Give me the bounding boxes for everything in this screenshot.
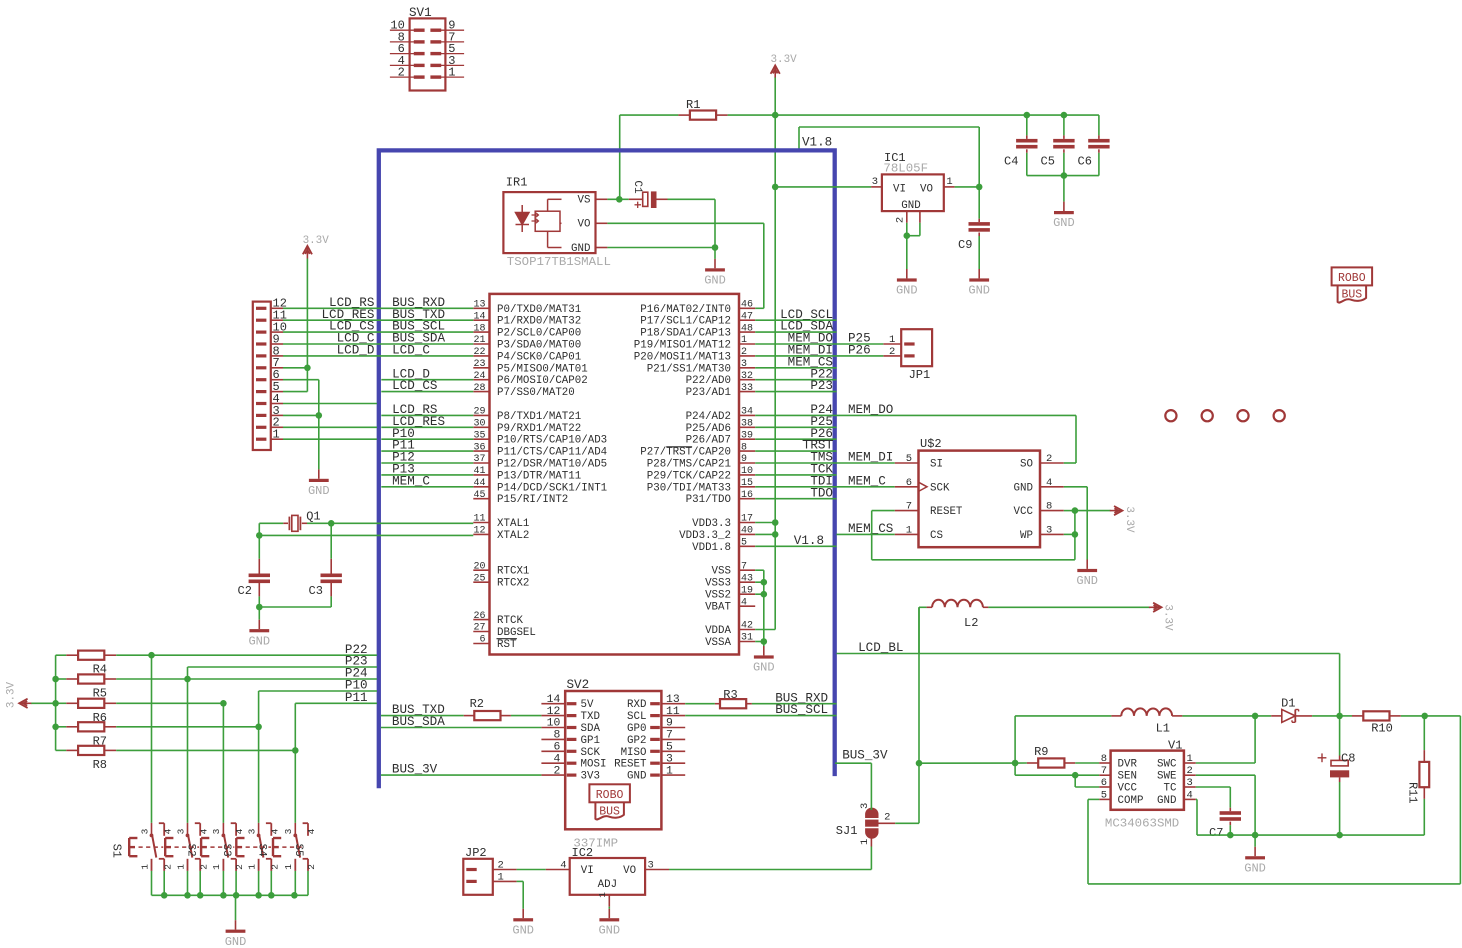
wire LCD_D..MEM_C rows xyxy=(381,367,473,488)
svg-text:13: 13 xyxy=(473,300,485,311)
svg-text:GND: GND xyxy=(901,200,920,212)
wire net P24 (in) xyxy=(755,403,836,417)
svg-text:P27/TRST/CAP20: P27/TRST/CAP20 xyxy=(640,447,731,459)
svg-text:39: 39 xyxy=(741,430,753,441)
svg-text:P14/DCD/SCK1/INT1: P14/DCD/SCK1/INT1 xyxy=(497,482,607,494)
svg-text:3: 3 xyxy=(872,176,878,188)
wire net BUS_3V (SV2) xyxy=(381,763,542,777)
svg-text:2: 2 xyxy=(1046,453,1052,465)
svg-text:GND: GND xyxy=(1157,795,1176,807)
svg-text:C8: C8 xyxy=(1341,752,1355,766)
svg-text:MISO: MISO xyxy=(621,747,647,759)
IC IR1 xyxy=(503,176,607,255)
wire net MEM_DO (U$2) xyxy=(837,403,1077,463)
wire V1 SWE xyxy=(1196,775,1255,835)
svg-text:2: 2 xyxy=(269,864,280,870)
svg-text:2: 2 xyxy=(1187,765,1193,777)
svg-text:DBGSEL: DBGSEL xyxy=(497,627,536,639)
wire VDD3.3 pins xyxy=(755,519,778,538)
svg-text:8: 8 xyxy=(741,442,747,453)
svg-text:TC: TC xyxy=(1164,783,1177,795)
svg-text:3: 3 xyxy=(211,828,222,834)
svg-text:V1.8: V1.8 xyxy=(802,136,832,150)
svg-text:7: 7 xyxy=(741,561,747,572)
svg-text:3: 3 xyxy=(666,753,673,765)
svg-text:18: 18 xyxy=(473,323,485,334)
svg-text:10: 10 xyxy=(547,718,561,730)
svg-text:21: 21 xyxy=(473,335,485,346)
svg-text:LCD_C: LCD_C xyxy=(392,344,430,358)
svg-text:IC2: IC2 xyxy=(572,846,594,860)
wire net P24 (left) xyxy=(116,667,377,683)
ground (switches) xyxy=(225,920,247,948)
svg-text:VDDA: VDDA xyxy=(705,625,731,637)
svg-text:SJ1: SJ1 xyxy=(836,824,858,838)
svg-text:P2/SCL0/CAP00: P2/SCL0/CAP00 xyxy=(497,328,581,340)
svg-text:P16/MAT02/INT0: P16/MAT02/INT0 xyxy=(640,304,731,316)
svg-text:3: 3 xyxy=(741,359,747,370)
svg-text:16: 16 xyxy=(741,490,753,501)
connector SV2 xyxy=(541,678,685,829)
switch S2 xyxy=(165,823,209,895)
wire net MEM_CS (in) xyxy=(755,355,836,369)
svg-text:41: 41 xyxy=(473,466,485,477)
wire IR1 VO to INT0 xyxy=(607,223,763,308)
svg-text:WP: WP xyxy=(1020,530,1033,542)
svg-text:C3: C3 xyxy=(309,584,323,598)
ground (U$2) xyxy=(1076,560,1098,589)
supply 3.3V (connector) xyxy=(283,235,329,392)
wire net LCD_BL xyxy=(837,641,1340,716)
wire net P22 (left) xyxy=(116,643,377,659)
svg-text:4: 4 xyxy=(1046,477,1052,489)
svg-text:4: 4 xyxy=(198,828,209,834)
supply 3.3V (U$2) xyxy=(1075,506,1135,533)
wire net P11 (left) xyxy=(295,691,377,705)
wire boost gnd row xyxy=(1197,832,1424,847)
wire connector gnd net xyxy=(283,380,322,470)
svg-text:17: 17 xyxy=(741,514,753,525)
svg-text:R3: R3 xyxy=(723,688,737,702)
wire R1 to IR1 VS xyxy=(619,115,621,199)
svg-text:GP2: GP2 xyxy=(627,735,646,747)
wire net P25 (JP1) xyxy=(837,332,884,346)
svg-text:SDA: SDA xyxy=(581,723,601,735)
svg-text:5: 5 xyxy=(741,538,747,549)
svg-text:VSS: VSS xyxy=(712,566,731,578)
svg-text:P12/DSR/MAT10/AD5: P12/DSR/MAT10/AD5 xyxy=(497,459,607,471)
svg-text:2: 2 xyxy=(741,347,747,358)
svg-text:20: 20 xyxy=(473,561,485,572)
svg-text:26: 26 xyxy=(473,611,485,622)
wire JP2 pin1 gnd xyxy=(517,881,524,908)
svg-text:R9: R9 xyxy=(1034,745,1048,759)
svg-text:S2: S2 xyxy=(184,844,196,857)
wire U$2 reset/wp/vcc tie xyxy=(872,507,1078,559)
svg-text:34: 34 xyxy=(741,407,753,418)
capacitor C1 xyxy=(629,180,668,208)
svg-text:48: 48 xyxy=(741,323,753,334)
svg-text:P25/AD6: P25/AD6 xyxy=(686,423,731,435)
wire decoupling gnd rail xyxy=(1027,172,1099,201)
wire LCD/BUS rows xyxy=(283,296,473,358)
svg-text:MC34063SMD: MC34063SMD xyxy=(1105,817,1179,831)
svg-text:BUS_SCL: BUS_SCL xyxy=(775,703,828,717)
supply 3.3V (top) xyxy=(771,54,798,78)
svg-text:IR1: IR1 xyxy=(506,176,528,190)
svg-text:1: 1 xyxy=(139,864,150,870)
svg-text:P7/SS0/MAT20: P7/SS0/MAT20 xyxy=(497,387,575,399)
svg-text:2: 2 xyxy=(306,864,317,870)
svg-text:GND: GND xyxy=(1053,216,1075,230)
frame module boundary xyxy=(379,150,835,788)
svg-text:MOSI: MOSI xyxy=(581,759,607,771)
svg-text:5: 5 xyxy=(1101,789,1107,801)
wire net LCD_SCL xyxy=(755,308,836,322)
svg-text:78L05F: 78L05F xyxy=(883,161,928,175)
IC IC1 78L05 xyxy=(871,151,955,223)
svg-text:ROBO: ROBO xyxy=(596,789,624,802)
ground (IR1) xyxy=(704,259,726,288)
wire XTAL1 xyxy=(328,520,473,527)
svg-text:5: 5 xyxy=(906,453,912,465)
wire R6 to switch3 xyxy=(116,700,227,707)
svg-text:P8/TXD1/MAT21: P8/TXD1/MAT21 xyxy=(497,411,581,423)
svg-text:1: 1 xyxy=(741,335,747,346)
svg-text:VDD3.3: VDD3.3 xyxy=(692,518,731,530)
svg-text:LCD_CS: LCD_CS xyxy=(392,379,437,393)
svg-text:ADJ: ADJ xyxy=(598,879,617,891)
capacitor C7 xyxy=(1209,808,1241,840)
wire connector pin1 xyxy=(283,438,377,440)
svg-text:36: 36 xyxy=(473,442,485,453)
svg-text:8: 8 xyxy=(1046,501,1052,513)
svg-text:47: 47 xyxy=(741,311,753,322)
svg-text:S1: S1 xyxy=(110,844,124,858)
svg-text:1: 1 xyxy=(211,864,222,870)
svg-text:P30/TDI/MAT33: P30/TDI/MAT33 xyxy=(647,482,731,494)
svg-text:7: 7 xyxy=(666,730,673,742)
wire L2 column xyxy=(916,607,923,766)
svg-text:SV2: SV2 xyxy=(567,678,590,692)
svg-text:33: 33 xyxy=(741,383,753,394)
svg-text:6: 6 xyxy=(479,635,485,646)
svg-text:C1: C1 xyxy=(631,180,643,194)
wire net P23 (left) xyxy=(188,655,378,669)
connector LCD header xyxy=(253,297,287,450)
wire net MEM_DO (in) xyxy=(755,332,836,346)
capacitor C4 xyxy=(1004,112,1038,176)
svg-text:RXD: RXD xyxy=(627,699,646,711)
capacitor C5 xyxy=(1041,112,1075,176)
capacitor C8 xyxy=(1318,716,1356,835)
svg-text:GND: GND xyxy=(512,923,534,937)
svg-text:P19/MISO1/MAT12: P19/MISO1/MAT12 xyxy=(634,340,731,352)
svg-text:BUS: BUS xyxy=(1341,288,1362,301)
svg-text:P0/TXD0/MAT31: P0/TXD0/MAT31 xyxy=(497,304,581,316)
svg-text:4: 4 xyxy=(741,597,747,608)
svg-text:P20/MOSI1/MAT13: P20/MOSI1/MAT13 xyxy=(634,351,731,363)
svg-text:P6/MOSI0/CAP02: P6/MOSI0/CAP02 xyxy=(497,375,588,387)
svg-text:1: 1 xyxy=(246,864,257,870)
svg-text:13: 13 xyxy=(666,694,680,706)
svg-text:2: 2 xyxy=(895,217,907,223)
wire supply to L1 xyxy=(1012,716,1019,766)
wire net MEM_DI (U$2) xyxy=(837,451,895,465)
svg-text:GP1: GP1 xyxy=(581,735,600,747)
svg-text:BUS: BUS xyxy=(599,805,620,818)
svg-text:P22/AD0: P22/AD0 xyxy=(686,375,731,387)
svg-text:1: 1 xyxy=(597,892,608,898)
svg-text:C5: C5 xyxy=(1041,155,1055,169)
svg-text:3.3V: 3.3V xyxy=(1123,506,1135,533)
svg-text:5: 5 xyxy=(666,742,673,754)
svg-text:GND: GND xyxy=(704,274,726,288)
svg-text:RTCX2: RTCX2 xyxy=(497,578,529,590)
svg-text:P5/MISO0/MAT01: P5/MISO0/MAT01 xyxy=(497,363,588,375)
value label 337IMP xyxy=(573,837,618,851)
switch S5 xyxy=(273,823,317,895)
svg-text:4: 4 xyxy=(560,860,566,872)
wire net MEM_CS (U$2) xyxy=(837,522,895,536)
svg-text:25: 25 xyxy=(473,573,485,584)
wire V1 SEN/VCC xyxy=(1015,763,1099,787)
svg-text:31: 31 xyxy=(741,633,753,644)
wire IC2 VO to SJ1 xyxy=(669,847,871,870)
svg-text:24: 24 xyxy=(473,371,485,382)
svg-text:45: 45 xyxy=(473,490,485,501)
wire net P22 (in) xyxy=(755,367,836,381)
svg-text:12: 12 xyxy=(473,526,485,537)
svg-text:9: 9 xyxy=(741,454,747,465)
wire JP2 to IC2 xyxy=(517,869,546,871)
resistor R9 xyxy=(1027,745,1099,767)
svg-text:3: 3 xyxy=(648,860,654,872)
logo ROBO BUS (top right) xyxy=(1332,267,1373,302)
connector SV1 xyxy=(390,6,464,91)
svg-text:R10: R10 xyxy=(1371,722,1393,736)
svg-text:27: 27 xyxy=(473,623,485,634)
wire V1 SWC xyxy=(1196,713,1259,763)
IC V1 MC34063 xyxy=(1099,739,1196,810)
crystal Q1 xyxy=(259,510,331,532)
svg-text:10: 10 xyxy=(741,466,753,477)
svg-text:1: 1 xyxy=(498,872,504,884)
svg-text:V1: V1 xyxy=(1168,739,1182,753)
resistor R1 xyxy=(620,98,776,120)
svg-text:40: 40 xyxy=(741,526,753,537)
svg-text:P4/SCK0/CAP01: P4/SCK0/CAP01 xyxy=(497,351,581,363)
svg-text:6: 6 xyxy=(553,742,560,754)
svg-text:3: 3 xyxy=(859,803,871,809)
jumper SJ1 xyxy=(836,803,895,847)
ground (C9) xyxy=(968,269,990,298)
svg-text:22: 22 xyxy=(473,347,485,358)
IC U1 main MCU outline xyxy=(490,294,740,655)
svg-text:P15/RI/INT2: P15/RI/INT2 xyxy=(497,494,568,506)
value label MC34063SMD xyxy=(1105,817,1179,831)
value label 78L05F xyxy=(883,161,928,175)
svg-text:S5: S5 xyxy=(292,844,304,857)
svg-text:R8: R8 xyxy=(93,758,107,772)
svg-text:1: 1 xyxy=(175,864,186,870)
wire IR1 VS node xyxy=(607,196,628,203)
svg-text:GND: GND xyxy=(753,661,775,675)
svg-text:S4: S4 xyxy=(255,844,267,857)
svg-text:XTAL1: XTAL1 xyxy=(497,518,529,530)
connector JP1 xyxy=(883,329,932,382)
svg-text:C6: C6 xyxy=(1078,155,1092,169)
wire switch2 column xyxy=(187,667,189,823)
svg-text:TDO: TDO xyxy=(810,486,833,500)
svg-text:2: 2 xyxy=(498,860,504,872)
svg-text:VO: VO xyxy=(920,183,933,195)
wire IC2 gnd xyxy=(608,907,610,909)
svg-text:C9: C9 xyxy=(958,238,972,252)
inductor L1 xyxy=(1015,708,1255,735)
wire VSS net xyxy=(755,570,767,646)
svg-text:MEM_DO: MEM_DO xyxy=(848,403,893,417)
ground (JP2) xyxy=(512,909,534,938)
ground (C4-C6) xyxy=(1053,202,1075,231)
svg-text:GP0: GP0 xyxy=(627,723,646,735)
svg-text:2: 2 xyxy=(553,765,560,777)
svg-text:C2: C2 xyxy=(238,584,252,598)
resistor R10 xyxy=(1340,711,1425,735)
capacitor C3 xyxy=(309,523,342,607)
svg-text:1: 1 xyxy=(1187,753,1193,765)
wire 3.3V rail vertical xyxy=(774,78,776,630)
svg-text:2: 2 xyxy=(889,346,895,358)
svg-text:GND: GND xyxy=(1014,482,1033,494)
IC U1 right pins xyxy=(634,300,755,650)
svg-text:3: 3 xyxy=(175,828,186,834)
capacitor C2 xyxy=(238,535,271,607)
svg-text:P26: P26 xyxy=(848,344,871,358)
svg-text:R2: R2 xyxy=(470,697,484,711)
wire crystal gnd xyxy=(256,604,331,620)
svg-text:12: 12 xyxy=(547,706,561,718)
svg-text:3: 3 xyxy=(1187,777,1193,789)
svg-text:19: 19 xyxy=(741,585,753,596)
svg-text:P26/AD7: P26/AD7 xyxy=(686,435,731,447)
svg-text:6: 6 xyxy=(1101,777,1107,789)
svg-text:2: 2 xyxy=(162,864,173,870)
svg-text:37: 37 xyxy=(473,454,485,465)
svg-text:1: 1 xyxy=(273,428,280,442)
svg-text:VDD3.3_2: VDD3.3_2 xyxy=(679,530,731,542)
svg-text:GND: GND xyxy=(627,771,646,783)
svg-text:JP2: JP2 xyxy=(465,846,487,860)
wire net TCK xyxy=(755,463,836,477)
svg-text:GND: GND xyxy=(968,284,990,298)
svg-text:23: 23 xyxy=(473,359,485,370)
wire switch1 column xyxy=(151,655,153,823)
svg-text:RST: RST xyxy=(497,639,517,651)
svg-text:P21/SS1/MAT30: P21/SS1/MAT30 xyxy=(647,363,731,375)
wire V1 TC xyxy=(1196,787,1231,808)
svg-text:P13/DTR/MAT11: P13/DTR/MAT11 xyxy=(497,470,581,482)
svg-text:SI: SI xyxy=(930,459,943,471)
svg-text:43: 43 xyxy=(741,573,753,584)
wire net MEM_DI (in) xyxy=(755,344,836,358)
svg-text:29: 29 xyxy=(473,407,485,418)
svg-text:P29/TCK/CAP22: P29/TCK/CAP22 xyxy=(647,470,731,482)
svg-text:1: 1 xyxy=(946,176,952,188)
svg-text:1: 1 xyxy=(666,765,673,777)
svg-text:VSS2: VSS2 xyxy=(705,590,731,602)
svg-text:VSSA: VSSA xyxy=(705,637,731,649)
wire switch gnd bus xyxy=(152,892,309,920)
svg-text:XTAL2: XTAL2 xyxy=(497,530,529,542)
wire net BUS_3V (SJ1) xyxy=(835,749,888,811)
wire net V1.8 (top) xyxy=(799,127,979,187)
svg-text:P28/TMS/CAP21: P28/TMS/CAP21 xyxy=(647,459,731,471)
svg-text:MEM_DI: MEM_DI xyxy=(848,451,893,465)
svg-text:MEM_C: MEM_C xyxy=(392,474,430,488)
ground (connector) xyxy=(308,469,330,498)
svg-text:44: 44 xyxy=(473,478,485,489)
svg-text:14: 14 xyxy=(547,694,561,706)
svg-text:VI: VI xyxy=(893,183,906,195)
svg-text:1: 1 xyxy=(283,864,294,870)
wire net TDI xyxy=(755,474,836,488)
wire C1/IR1 gnd net xyxy=(607,199,718,259)
svg-text:TSOP17TB1SMALL: TSOP17TB1SMALL xyxy=(507,255,611,269)
diode D1 xyxy=(1255,697,1340,723)
svg-text:15: 15 xyxy=(741,478,753,489)
svg-text:38: 38 xyxy=(741,419,753,430)
svg-text:GND: GND xyxy=(571,243,590,255)
svg-text:VDD1.8: VDD1.8 xyxy=(692,542,731,554)
svg-text:COMP: COMP xyxy=(1118,795,1144,807)
capacitor C9 xyxy=(958,187,990,269)
svg-text:GND: GND xyxy=(1076,574,1098,588)
svg-text:SWE: SWE xyxy=(1157,771,1176,783)
svg-text:VO: VO xyxy=(623,865,636,877)
mounting holes xyxy=(1165,410,1284,421)
svg-text:Q1: Q1 xyxy=(306,510,320,524)
ground (IC2) xyxy=(598,909,620,938)
svg-text:42: 42 xyxy=(741,621,753,632)
svg-text:8: 8 xyxy=(1101,753,1107,765)
svg-text:DVR: DVR xyxy=(1118,759,1138,771)
svg-text:SEN: SEN xyxy=(1118,771,1137,783)
wire V1 GND pin xyxy=(1196,799,1197,835)
svg-text:BUS_SDA: BUS_SDA xyxy=(392,715,445,729)
svg-text:11: 11 xyxy=(473,514,485,525)
svg-text:R11: R11 xyxy=(1406,782,1420,804)
resistor R3 xyxy=(685,688,836,708)
svg-text:MEM_C: MEM_C xyxy=(848,474,886,488)
wire net V1.8 (pin5) xyxy=(755,534,836,548)
connector JP2 xyxy=(463,846,516,895)
svg-text:R1: R1 xyxy=(686,98,700,112)
wire switch5 column xyxy=(294,703,296,823)
svg-text:SCK: SCK xyxy=(930,482,950,494)
wire net P23 (in) xyxy=(755,379,836,393)
svg-text:28: 28 xyxy=(473,383,485,394)
wire net TRST xyxy=(755,439,836,453)
wire U$2 gnd xyxy=(1064,487,1087,560)
supply 3.3V (left) xyxy=(6,681,56,708)
svg-text:VSS3: VSS3 xyxy=(705,578,731,590)
svg-text:L2: L2 xyxy=(964,616,978,630)
svg-text:4: 4 xyxy=(553,753,560,765)
svg-text:GND: GND xyxy=(248,634,270,648)
svg-text:2: 2 xyxy=(198,864,209,870)
svg-text:8: 8 xyxy=(553,730,560,742)
